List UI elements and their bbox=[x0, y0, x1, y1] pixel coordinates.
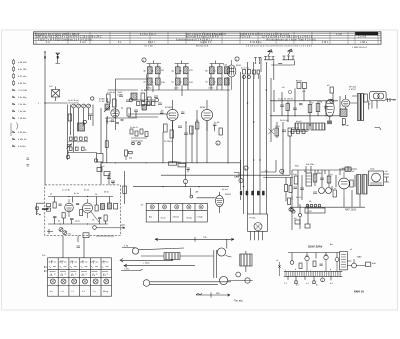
capacitor C40 bbox=[305, 256, 309, 271]
node FM tuner dashed box bbox=[45, 185, 121, 236]
node dots bbox=[281, 90, 326, 116]
node filter block bbox=[276, 243, 376, 294]
resistor R35 bbox=[219, 128, 222, 135]
resistor R41 bbox=[62, 213, 65, 219]
svg-text:Bands: Bands bbox=[187, 218, 193, 220]
node osc row1 bbox=[68, 137, 88, 142]
transformer T4 bbox=[369, 171, 384, 186]
node trimmer T bbox=[66, 144, 72, 159]
node labels-2k0Z bbox=[118, 92, 124, 97]
svg-text:6b 2M 1c: 6b 2M 1c bbox=[106, 121, 116, 123]
node circledA bbox=[239, 178, 243, 182]
svg-text:d: d bbox=[330, 269, 331, 271]
capacitor C31 bbox=[111, 181, 115, 182]
resistor R39 bbox=[333, 190, 336, 197]
wire bbox=[163, 110, 207, 163]
svg-text:4 6 1 8 2 e b 12 4 c 6 x 22 8: 4 6 1 8 2 e b 12 4 c 6 x 22 8 41 6 8 e 2… bbox=[246, 45, 313, 47]
svg-text:7 9v 06c: 7 9v 06c bbox=[18, 111, 27, 113]
svg-text:L.Regl: L.Regl bbox=[197, 217, 203, 219]
wire bbox=[124, 171, 126, 204]
wire bus1 bbox=[240, 72, 242, 178]
svg-text:K U: K U bbox=[60, 261, 64, 263]
node tension box bbox=[240, 254, 252, 266]
capacitor C34 bbox=[213, 124, 217, 131]
node pin-row1 bbox=[264, 57, 275, 60]
node trimmer X bbox=[269, 129, 275, 135]
wire bbox=[48, 197, 113, 225]
svg-text:1 KM4 1614 e2: 1 KM4 1614 e2 bbox=[352, 47, 368, 49]
capacitor C29 bbox=[98, 218, 102, 219]
node output-stage cluster bbox=[269, 78, 341, 175]
wire bbox=[101, 164, 113, 185]
resistor R1 bbox=[68, 114, 71, 121]
wire bottom dial line bbox=[196, 293, 230, 298]
node circled6 bbox=[244, 166, 248, 170]
svg-text:4 66 06c: 4 66 06c bbox=[18, 132, 27, 134]
svg-text:e4 1c: e4 1c bbox=[174, 88, 180, 90]
svg-text:1c 2e 4b: 1c 2e 4b bbox=[62, 190, 71, 192]
pulley P4 bbox=[143, 280, 150, 287]
resistor R12 bbox=[178, 164, 186, 167]
wire bbox=[144, 85, 230, 96]
svg-text:A8 b8: A8 b8 bbox=[296, 80, 302, 83]
wire bbox=[122, 248, 184, 250]
svg-text:b 6 e 14 2 8: b 6 e 14 2 8 bbox=[212, 34, 227, 36]
knob K1 bbox=[236, 272, 241, 277]
node mid components bbox=[164, 121, 194, 143]
svg-text:Gram: Gram bbox=[161, 218, 166, 220]
svg-text:2.Empf: 2.Empf bbox=[173, 217, 180, 219]
wire bbox=[116, 74, 147, 130]
node mid contact row bbox=[128, 98, 170, 117]
svg-text:b 3t 66c: b 3t 66c bbox=[18, 145, 27, 148]
node hook bbox=[234, 173, 245, 178]
capacitor C36 bbox=[300, 188, 304, 190]
svg-text:n 68 e: n 68 e bbox=[360, 42, 368, 44]
svg-text:1 9v 36c: 1 9v 36c bbox=[18, 104, 27, 106]
svg-text:4e 8b: 4e 8b bbox=[316, 173, 322, 175]
capacitor C17 bbox=[282, 130, 286, 132]
svg-text:16AV: 16AV bbox=[357, 256, 363, 259]
svg-text:p 04 090: p 04 090 bbox=[18, 62, 27, 64]
IF transformer S6 bbox=[205, 78, 229, 90]
resistor R5 bbox=[113, 99, 117, 107]
svg-text:c d: c d bbox=[61, 291, 64, 293]
capacitor C37 bbox=[313, 192, 317, 194]
resistor R19 bbox=[288, 128, 292, 136]
svg-text:1b 2c: 1b 2c bbox=[275, 126, 281, 128]
node bottom small parts bbox=[177, 162, 190, 173]
wire bbox=[227, 77, 229, 163]
resistor R6 bbox=[127, 108, 131, 116]
node 1 bbox=[38, 102, 46, 105]
svg-text:1u 4k 8c: 1u 4k 8c bbox=[107, 92, 116, 94]
node bottom row bbox=[288, 128, 308, 134]
capacitor C32 bbox=[160, 112, 164, 113]
node tuner parts bbox=[47, 190, 118, 225]
svg-text:b2 6e: b2 6e bbox=[146, 88, 152, 90]
node small circles bbox=[289, 208, 292, 211]
capacitor C8 bbox=[134, 110, 138, 118]
svg-text:6 1: 6 1 bbox=[118, 42, 122, 44]
tube B9 bbox=[342, 99, 350, 107]
svg-text:t 11 1 14 t: t 11 1 14 t bbox=[144, 44, 154, 47]
svg-text:b 69 24c: b 69 24c bbox=[18, 83, 27, 85]
node pin-pair bbox=[254, 58, 261, 64]
node bus-junctions bbox=[243, 89, 267, 187]
tube B6 bbox=[65, 199, 74, 217]
svg-text:2c 08: 2c 08 bbox=[99, 101, 105, 103]
resistor R18 bbox=[275, 128, 279, 136]
svg-text:b 9702: b 9702 bbox=[349, 89, 356, 91]
node circled1 bbox=[321, 278, 325, 282]
svg-text:PU 8e: PU 8e bbox=[250, 218, 257, 220]
wire bbox=[63, 236, 84, 258]
capacitor C6 bbox=[119, 95, 123, 97]
wire bbox=[290, 190, 365, 207]
resistor R46 bbox=[313, 261, 316, 267]
wire bbox=[240, 160, 293, 200]
resistor R15 bbox=[303, 83, 307, 89]
svg-text:Ant: Ant bbox=[149, 216, 152, 219]
relay RL1 bbox=[340, 252, 348, 270]
svg-text:3 e 4 8: 3 e 4 8 bbox=[358, 37, 367, 39]
node left hook bbox=[121, 269, 143, 270]
resistor R30 bbox=[123, 186, 127, 194]
wire bbox=[274, 90, 340, 175]
resistor R36 bbox=[286, 104, 289, 111]
svg-text:5b 2e 4g: 5b 2e 4g bbox=[280, 120, 289, 122]
svg-text:4 M 1: 4 M 1 bbox=[322, 42, 329, 44]
wire bbox=[161, 174, 290, 176]
resistor R27 bbox=[104, 215, 107, 221]
resistor R23 bbox=[53, 202, 56, 208]
svg-text:b2 e4: b2 e4 bbox=[222, 189, 228, 191]
wire bus5 bbox=[259, 75, 261, 214]
node osc row2 bbox=[70, 147, 89, 152]
IF transformer S4 bbox=[171, 78, 193, 90]
resistor R22 bbox=[327, 176, 331, 183]
wire bbox=[100, 108, 102, 172]
capacitor C38 bbox=[294, 187, 298, 188]
resistor R3 bbox=[91, 97, 103, 162]
svg-text:4a 2e 6c: 4a 2e 6c bbox=[241, 68, 250, 70]
node left column bbox=[276, 260, 281, 276]
capacitor C4 bbox=[87, 104, 91, 108]
connector P1 bbox=[268, 50, 273, 56]
svg-text:m: m bbox=[236, 176, 238, 178]
svg-text:c: c bbox=[310, 270, 311, 272]
svg-text:1M: 1M bbox=[319, 102, 322, 104]
svg-text:4 x 8 e 7 11 2: 4 x 8 e 7 11 2 bbox=[140, 34, 156, 36]
wire bbox=[68, 152, 98, 154]
node box-bottom unit bbox=[78, 225, 125, 238]
svg-text:c4 b2 e8 k6: c4 b2 e8 k6 bbox=[68, 103, 79, 105]
svg-text:B RADIOS 4d 17316 b 19651 e MB: B RADIOS 4d 17316 b 19651 e MB 2tr bbox=[35, 33, 80, 36]
svg-text:b8 41: b8 41 bbox=[104, 192, 110, 194]
tube B2 bbox=[165, 100, 178, 130]
transformer T3 bbox=[357, 175, 362, 195]
capacitor C16 bbox=[324, 107, 328, 109]
node trimmers below box bbox=[47, 228, 80, 248]
capacitor C22 bbox=[319, 188, 325, 194]
wire bbox=[133, 186, 229, 188]
svg-text:4 B M 2 e M 4 9316 GewGmkt 2 d: 4 B M 2 e M 4 9316 GewGmkt 2 d 4 8 4 26 … bbox=[38, 38, 93, 41]
svg-text:6 2 e 1 8: 6 2 e 1 8 bbox=[240, 37, 251, 39]
node tube surroundings bbox=[160, 110, 222, 163]
tube B8 mixer bbox=[111, 109, 119, 117]
IF transformer S3 bbox=[171, 67, 193, 74]
node aux cluster right of eye bbox=[290, 196, 310, 230]
resistor R17 bbox=[316, 104, 320, 112]
wire bbox=[150, 282, 231, 285]
resistor R8 bbox=[148, 97, 152, 105]
node speaker circuit bbox=[330, 87, 396, 131]
capacitor C42 bbox=[320, 264, 323, 265]
tube B4 bbox=[325, 99, 334, 116]
antenna A1 bbox=[56, 53, 60, 64]
capacitor C20 bbox=[306, 173, 312, 186]
resistor R9 bbox=[164, 124, 168, 132]
svg-text:1→: 1→ bbox=[38, 103, 41, 105]
inductor L6 bbox=[108, 203, 112, 209]
wire bbox=[286, 178, 291, 202]
wire bus3 bbox=[247, 62, 249, 214]
resistor R29 bbox=[104, 172, 110, 176]
capacitor C2 bbox=[77, 104, 81, 108]
svg-text:4 c: 4 c bbox=[82, 261, 85, 263]
svg-text:ECH81: ECH81 bbox=[165, 107, 173, 109]
inductor L3 bbox=[131, 93, 137, 100]
spring S bbox=[164, 253, 180, 260]
capacitor C14 bbox=[280, 105, 284, 107]
node header-text bbox=[35, 33, 368, 44]
tube B1 bbox=[227, 57, 242, 90]
capacitor C3 bbox=[82, 104, 86, 108]
svg-text:4 3v 45g: 4 3v 45g bbox=[18, 97, 27, 99]
svg-text:C 16 189: C 16 189 bbox=[18, 90, 28, 92]
inductor L5 bbox=[101, 204, 105, 210]
transformer T1 bbox=[49, 86, 60, 101]
node bus tap blobs bbox=[240, 191, 265, 196]
node bus box bbox=[248, 214, 268, 240]
tube EM34 magic eye bbox=[190, 188, 232, 213]
wire bbox=[68, 105, 94, 161]
svg-text:EM34: EM34 bbox=[225, 194, 231, 196]
node selector bbox=[306, 204, 309, 207]
svg-text:6 elektrntechnkt 8 2 4 12 M 2: 6 elektrntechnkt 8 2 4 12 M 2 1 bbox=[176, 38, 213, 41]
svg-text:nsprkt 2 b: nsprkt 2 b bbox=[200, 41, 212, 44]
capacitor C1 bbox=[72, 104, 76, 108]
capacitor C41 bbox=[324, 255, 328, 271]
wire bbox=[120, 259, 173, 262]
resistor R43 bbox=[289, 186, 292, 193]
node right parts bbox=[352, 263, 357, 268]
wire bbox=[45, 102, 68, 104]
capacitor C5 bbox=[89, 114, 93, 120]
node circledB bbox=[183, 179, 187, 183]
svg-text:14093 k 4 B 12 6 27 1 4 9 2 e: 14093 k 4 B 12 6 27 1 4 9 2 e 8 b 41 x 2… bbox=[240, 34, 290, 36]
dipole antenna bbox=[36, 203, 49, 215]
svg-text:4 d 2: 4 d 2 bbox=[80, 42, 86, 44]
wire bus6 bbox=[265, 62, 267, 214]
wire bus2 bbox=[243, 75, 245, 214]
capacitor C24 bbox=[59, 204, 62, 205]
capacitor C12 bbox=[184, 133, 188, 135]
node circled5 bbox=[216, 141, 220, 145]
lamp E3 bbox=[335, 258, 339, 272]
wire bbox=[148, 74, 222, 78]
inductor L4 bbox=[340, 109, 347, 117]
svg-text:C70a: C70a bbox=[124, 269, 130, 271]
resistor R34 bbox=[196, 122, 199, 129]
svg-text:2e 4b 1c: 2e 4b 1c bbox=[130, 127, 139, 129]
wire bbox=[350, 96, 396, 130]
node contact comb bbox=[284, 271, 343, 276]
node circled3 bbox=[142, 58, 146, 62]
svg-text:ES 912 4 b 8: ES 912 4 b 8 bbox=[196, 45, 209, 47]
svg-text:c 226a: c 226a bbox=[143, 263, 150, 265]
svg-text:2 d: 2 d bbox=[46, 42, 50, 44]
node left-mid cluster bbox=[141, 90, 162, 105]
node power section bbox=[290, 164, 389, 213]
IF transformer S2 bbox=[143, 78, 165, 90]
node bus head parts bbox=[241, 68, 260, 80]
svg-text:1 4 b: 1 4 b bbox=[336, 34, 342, 36]
resistor R42 bbox=[285, 185, 288, 192]
node circled8 bbox=[280, 169, 284, 173]
node hanging parts bbox=[288, 276, 331, 283]
node tall caps bbox=[357, 94, 360, 121]
node tuner labels bbox=[50, 190, 110, 223]
svg-text:b 09c 06: b 09c 06 bbox=[18, 139, 27, 141]
capacitor C9 bbox=[154, 96, 158, 98]
node osc labels bbox=[68, 100, 79, 105]
tube B5 bbox=[339, 178, 350, 189]
svg-text:6e 2k: 6e 2k bbox=[84, 190, 89, 192]
inductor L2 bbox=[78, 120, 87, 131]
node header-table bbox=[34, 32, 382, 49]
resistor R10 bbox=[170, 130, 174, 138]
capacitor C23 bbox=[326, 188, 332, 194]
svg-text:1g 6c: 1g 6c bbox=[75, 221, 80, 223]
resistor R38 bbox=[294, 176, 298, 184]
wire bbox=[288, 253, 340, 261]
resistor R7 bbox=[141, 93, 145, 101]
pulley P3 bbox=[132, 248, 138, 254]
node junctions bbox=[59, 196, 88, 225]
capacitor C27 bbox=[53, 217, 57, 218]
capacitor C15 bbox=[293, 108, 297, 110]
capacitor C39 bbox=[290, 261, 294, 265]
wire bbox=[271, 78, 326, 142]
svg-text:12 4 2 tC 8 4 x 4 17 f 88 1 2: 12 4 2 tC 8 4 x 4 17 f 88 1 2 b 6 e 2 4 … bbox=[262, 36, 313, 39]
svg-text:8 13 t: 8 13 t bbox=[148, 41, 155, 44]
capacitor C35 bbox=[299, 104, 303, 105]
svg-text:8 41 6 8 e: 8 41 6 8 e bbox=[250, 42, 262, 44]
svg-text:50k 35b: 50k 35b bbox=[306, 164, 315, 166]
svg-text:L M: L M bbox=[50, 261, 54, 263]
capacitor C28 bbox=[70, 219, 74, 220]
svg-text:22AV 22AV: 22AV 22AV bbox=[308, 245, 322, 249]
node right pulley assembly bbox=[214, 240, 227, 279]
wire bbox=[306, 166, 355, 190]
node switch table bbox=[42, 255, 112, 296]
transformer T2 bbox=[295, 121, 325, 130]
resistor R24 bbox=[80, 210, 83, 216]
svg-text:EF89: EF89 bbox=[200, 107, 206, 109]
node terminal strip table bbox=[141, 203, 207, 222]
node dial mechanism bbox=[120, 237, 253, 303]
capacitor C30 bbox=[107, 177, 111, 178]
resistor R4 bbox=[107, 94, 111, 102]
resistor R14 bbox=[297, 83, 301, 89]
resistor R40 bbox=[350, 180, 353, 187]
svg-text:Mang: Mang bbox=[103, 291, 108, 293]
node feed arrow bbox=[44, 52, 46, 59]
speaker LS1 bbox=[370, 91, 387, 100]
tube B7 bbox=[83, 199, 93, 218]
resistor R44 bbox=[288, 198, 291, 205]
capacitor C11 bbox=[178, 126, 182, 128]
node cluster-marks bbox=[105, 90, 138, 123]
svg-text:b4 e6: b4 e6 bbox=[296, 121, 302, 123]
node grommet bbox=[330, 99, 334, 103]
node mains parts bbox=[384, 174, 389, 182]
connector P2 bbox=[288, 49, 293, 55]
node switch cluster bbox=[130, 127, 148, 145]
node small parts2 bbox=[111, 120, 132, 161]
wire bus4 bbox=[253, 62, 255, 214]
capacitor C33 bbox=[181, 112, 185, 113]
resistor R11 bbox=[190, 126, 194, 134]
resistor R37 bbox=[330, 87, 333, 93]
capacitor C21 bbox=[320, 178, 324, 180]
resistor R45 bbox=[299, 263, 302, 269]
svg-text:RAT 2241: RAT 2241 bbox=[345, 209, 357, 212]
wire bbox=[150, 61, 220, 67]
wire bbox=[185, 164, 187, 187]
resistor R20 bbox=[342, 119, 345, 125]
wire bbox=[292, 170, 352, 207]
wire top dial line bbox=[155, 237, 234, 242]
node right small cluster 16AV bbox=[339, 167, 357, 172]
wire bbox=[261, 57, 294, 80]
node right parts bbox=[114, 204, 118, 210]
resistor R25 bbox=[95, 205, 98, 211]
resistor R28 bbox=[97, 168, 102, 172]
node phase splitter parts bbox=[285, 178, 298, 214]
node parts above tuner bbox=[97, 164, 115, 185]
resistor R16 bbox=[308, 105, 312, 113]
svg-text:SP xxb: SP xxb bbox=[342, 125, 350, 127]
svg-text:Ton abc: Ton abc bbox=[234, 300, 244, 303]
svg-text:6a 2e: 6a 2e bbox=[296, 197, 302, 199]
node input feed bbox=[47, 204, 51, 207]
node right marks bbox=[388, 98, 396, 102]
IF transformer S5 bbox=[205, 64, 229, 73]
node osc trimmer stack bbox=[99, 98, 110, 124]
wire bbox=[44, 52, 46, 185]
IF transformer S1 bbox=[143, 67, 164, 74]
capacitor C25 bbox=[76, 204, 79, 205]
node mid cluster2 bbox=[275, 126, 292, 136]
capacitor C10 bbox=[158, 103, 162, 105]
resistor R47 bbox=[105, 141, 108, 148]
svg-text:1 36 66c: 1 36 66c bbox=[18, 118, 27, 120]
resistor R13 bbox=[169, 162, 177, 165]
svg-text:2a 4c 6k 1M 2b: 2a 4c 6k 1M 2b bbox=[278, 99, 294, 101]
